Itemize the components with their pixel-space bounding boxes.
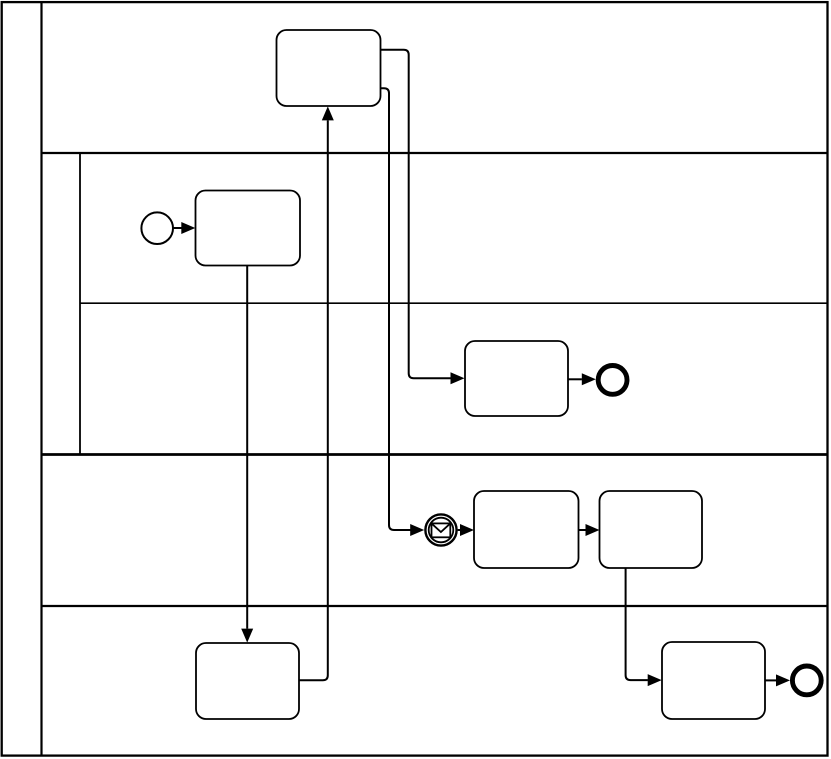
- task T-top (lane 1): [277, 30, 381, 106]
- task T1 (lane 2a): [196, 191, 301, 266]
- task T4 (lane 3): [600, 491, 703, 568]
- wire start event to task T1: [174, 227, 182, 229]
- nested sub-lane boundary: [80, 302, 828, 304]
- wire message event to task T3: [458, 529, 461, 531]
- wire from task T4 down to task T6: [626, 568, 648, 680]
- wire from task T5 up to top task: [299, 120, 328, 680]
- nested lane label divider: [79, 153, 81, 455]
- end event 1: [598, 366, 627, 395]
- lane boundary 2: [42, 453, 828, 456]
- lane boundary 3: [42, 605, 828, 607]
- task T2 (lane 2b): [465, 341, 568, 416]
- wire W2 (top task to task T2): [381, 50, 451, 379]
- task T6 (lane 4): [662, 642, 765, 719]
- task T3 (lane 3): [474, 491, 579, 568]
- wire task T6 to end event 2: [765, 679, 776, 681]
- start event: [141, 212, 173, 244]
- wire task T2 to end event 1: [568, 378, 582, 380]
- pool label divider: [40, 2, 42, 756]
- lane boundary 1: [42, 152, 828, 154]
- task T5 (lane 4): [196, 643, 299, 719]
- wire W3 (top task to message event): [381, 88, 411, 530]
- message intermediate event: [425, 514, 456, 545]
- end event 2: [792, 666, 821, 695]
- wire from task T1 down to task T5: [246, 266, 248, 629]
- wire task T3 to task T4: [579, 529, 586, 531]
